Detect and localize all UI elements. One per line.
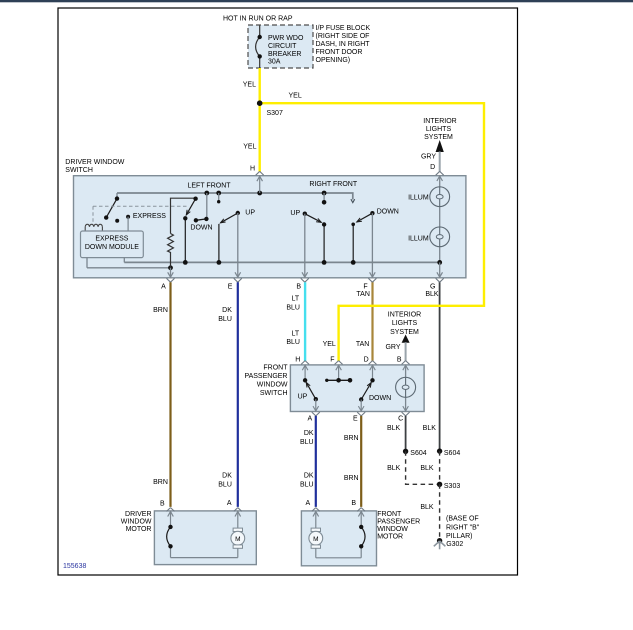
svg-text:FRONT: FRONT — [263, 364, 288, 371]
svg-text:ILLUM: ILLUM — [408, 194, 429, 201]
express switch stub — [116, 193, 118, 199]
svg-text:A: A — [161, 284, 166, 291]
motor M (passenger) — [313, 511, 319, 528]
svg-text:S307: S307 — [267, 110, 283, 117]
svg-text:DOWN: DOWN — [190, 225, 212, 232]
driver motor breaker branch — [168, 511, 238, 557]
left front UP switch arm — [221, 213, 238, 223]
pin G exit wire and arrow — [439, 262, 441, 277]
svg-text:S604: S604 — [444, 450, 460, 457]
svg-text:H: H — [250, 166, 255, 173]
left front DOWN make contact bar — [196, 219, 207, 220]
svg-text:A: A — [306, 500, 311, 507]
svg-text:DK: DK — [222, 307, 232, 314]
passenger DOWN switch: D feed wire — [372, 365, 374, 380]
svg-text:BRN: BRN — [153, 479, 168, 486]
svg-text:E: E — [353, 415, 358, 422]
pin H internal arrow — [257, 176, 263, 193]
svg-text:(BASE OF: (BASE OF — [446, 516, 479, 523]
splice S604 right — [437, 448, 442, 453]
svg-text:PILLAR): PILLAR) — [446, 533, 472, 540]
driver switch bus wire — [117, 193, 353, 200]
svg-text:G: G — [430, 284, 435, 291]
dashed BLK wire S604L to S303 — [406, 451, 440, 484]
ground G302 — [437, 538, 442, 543]
passenger illumination lamp wire — [405, 365, 407, 411]
node rail2 pin A junction — [168, 265, 173, 270]
interior lights system reference top — [423, 118, 456, 141]
passenger bottom pin chevrons A E C — [312, 412, 410, 416]
arrow to interior lights middle — [402, 335, 410, 343]
left front DOWN switch arm — [186, 199, 195, 215]
right front UP bus stub — [323, 193, 325, 202]
svg-text:HOT IN RUN OR RAP: HOT IN RUN OR RAP — [223, 16, 293, 23]
right front DOWN switch arm — [357, 213, 373, 222]
node bus left-down stub — [204, 191, 209, 196]
wire BRN driver A to motor B — [169, 282, 171, 507]
svg-text:E: E — [228, 284, 233, 291]
label PWR WDO CIRCUIT BREAKER 30A — [268, 35, 304, 66]
svg-text:WINDOW: WINDOW — [257, 382, 288, 389]
svg-text:UP: UP — [245, 210, 255, 217]
resistor R (driver switch) — [168, 198, 196, 268]
node bus right-up stub — [322, 191, 327, 196]
svg-text:BLK: BLK — [420, 465, 434, 472]
svg-text:BLU: BLU — [286, 305, 300, 312]
svg-text:DK: DK — [304, 430, 314, 437]
dashed BLK wire S604R to S303 — [439, 451, 441, 484]
svg-text:ILLUM: ILLUM — [408, 235, 429, 242]
passenger motor pin A chevron — [312, 508, 320, 512]
passenger pin A exit — [315, 399, 317, 411]
wire BLK driver G to S604 — [439, 282, 441, 451]
svg-text:INTERIOR: INTERIOR — [388, 311, 421, 318]
svg-text:LIGHTS: LIGHTS — [392, 320, 418, 327]
illumination lamp wire (driver switch) — [439, 176, 441, 263]
left front UP bus stub — [218, 193, 220, 202]
wire TAN driver F to passenger D — [371, 282, 373, 361]
svg-text:DRIVER WINDOW: DRIVER WINDOW — [65, 159, 125, 166]
svg-text:DRIVER: DRIVER — [125, 511, 151, 518]
pin H chevron (driver switch top) — [256, 171, 264, 175]
svg-text:UP: UP — [298, 394, 308, 401]
motor M (driver) — [235, 511, 241, 528]
wire GRY passenger B to interior lights — [405, 342, 407, 361]
svg-text:PASSENGER: PASSENGER — [377, 519, 420, 526]
svg-text:RIGHT "B": RIGHT "B" — [446, 524, 480, 531]
left front UP contact wire to rail — [218, 224, 220, 263]
svg-text:INTERIOR: INTERIOR — [423, 118, 456, 125]
svg-text:LT: LT — [292, 295, 300, 302]
border frame — [58, 8, 518, 575]
svg-text:DOWN: DOWN — [369, 395, 391, 402]
left front DOWN contact wire to rail — [184, 218, 186, 262]
ground rail wire (rail1) — [124, 261, 439, 263]
svg-text:B: B — [296, 284, 301, 291]
express contact — [126, 215, 130, 219]
arrow to interior lights top — [436, 140, 444, 152]
breaker arc (driver motor) — [167, 527, 171, 546]
wire right UP pivot to pin B — [304, 214, 306, 278]
driver bottom pin chevrons A E B F G — [167, 278, 444, 282]
wire BRN passenger E to motor B — [360, 416, 362, 507]
wire UP pivot to pin E — [237, 213, 239, 277]
svg-text:BRN: BRN — [344, 475, 359, 482]
node lamp to rail — [437, 260, 442, 265]
svg-text:F: F — [363, 284, 367, 291]
pin A exit wire and arrow — [170, 268, 172, 277]
svg-text:LIGHTS: LIGHTS — [426, 126, 452, 133]
svg-text:DK: DK — [304, 472, 314, 479]
passenger motor pin B chevron — [357, 508, 365, 512]
svg-text:155638: 155638 — [63, 563, 86, 570]
splice S604 left — [403, 449, 408, 454]
svg-text:UP: UP — [290, 210, 300, 217]
svg-text:WINDOW: WINDOW — [377, 526, 408, 533]
I/P fuse block dashed box — [248, 25, 313, 68]
dashed BLK wire S303 to G302 — [439, 484, 441, 539]
breaker arc (passenger motor) — [361, 527, 365, 546]
splice S307 — [257, 100, 263, 106]
pin E exit arrow — [235, 272, 241, 277]
front passenger window switch box — [290, 365, 424, 412]
svg-text:SWITCH: SWITCH — [260, 390, 288, 397]
svg-text:(RIGHT SIDE OF: (RIGHT SIDE OF — [316, 33, 370, 40]
passenger DOWN arm — [361, 383, 371, 400]
motor pin B chevron — [167, 508, 175, 512]
svg-text:M: M — [235, 536, 240, 543]
svg-text:BLU: BLU — [286, 339, 300, 346]
svg-text:S303: S303 — [444, 483, 460, 490]
right front UP switch arm — [305, 214, 322, 223]
svg-text:DASH, IN RIGHT: DASH, IN RIGHT — [316, 41, 371, 48]
wire DK BLU driver E to motor A — [237, 282, 239, 507]
splice S303 — [437, 482, 442, 487]
coil of express down module — [85, 224, 102, 231]
node bus-H junction — [257, 191, 262, 196]
svg-text:BLK: BLK — [425, 291, 439, 298]
left front DOWN bus stub — [206, 193, 208, 219]
page top bar — [0, 0, 633, 2]
svg-text:D: D — [430, 164, 435, 171]
right front UP contact wire to rail — [323, 225, 325, 263]
svg-text:S604: S604 — [410, 450, 426, 457]
svg-text:B: B — [351, 500, 356, 507]
svg-text:FRONT: FRONT — [377, 511, 402, 518]
svg-text:SYSTEM: SYSTEM — [424, 134, 453, 141]
svg-text:A: A — [308, 415, 313, 422]
label I/P FUSE BLOCK location — [316, 25, 371, 64]
wire express contact to module — [127, 217, 129, 231]
node bus left-up stub — [216, 191, 221, 196]
wire YEL breaker to S307 to driver H, and S307 to passenger F — [260, 68, 484, 361]
passenger motor breaker branch — [316, 511, 364, 557]
svg-text:DK: DK — [222, 472, 232, 479]
express rest contact — [115, 219, 119, 223]
express down module box — [81, 231, 144, 258]
passenger F feed wire and bar — [338, 365, 340, 380]
svg-text:F: F — [330, 357, 334, 364]
svg-text:EXPRESS: EXPRESS — [95, 236, 128, 243]
svg-text:A: A — [227, 500, 232, 507]
front passenger window motor box — [301, 511, 376, 566]
express switch arm — [106, 199, 117, 218]
svg-text:BLK: BLK — [420, 504, 434, 511]
passenger UP switch: H feed wire — [304, 365, 306, 380]
svg-text:D: D — [364, 357, 369, 364]
svg-text:30A: 30A — [268, 59, 281, 66]
svg-text:SYSTEM: SYSTEM — [390, 329, 419, 336]
svg-text:OPENING): OPENING) — [316, 57, 351, 64]
wire LT BLU driver B to passenger H — [304, 282, 306, 361]
lamp ILLUM 1 — [430, 187, 450, 207]
svg-text:G302: G302 — [446, 541, 463, 548]
svg-text:B: B — [160, 501, 165, 508]
driver window motor box — [154, 511, 256, 565]
lamp ILLUM (passenger) — [396, 377, 416, 397]
svg-text:BLU: BLU — [300, 439, 314, 446]
svg-text:GRY: GRY — [385, 344, 400, 351]
module output left wire — [86, 258, 88, 268]
svg-text:PWR WDO: PWR WDO — [268, 35, 304, 42]
svg-text:YEL: YEL — [289, 93, 302, 100]
wire right DOWN pivot to pin F — [371, 213, 373, 277]
svg-text:I/P FUSE BLOCK: I/P FUSE BLOCK — [316, 25, 371, 32]
svg-text:MOTOR: MOTOR — [377, 534, 403, 541]
wire BLK passenger C to S604 — [405, 416, 407, 451]
svg-text:WINDOW: WINDOW — [121, 519, 152, 526]
svg-text:BREAKER: BREAKER — [268, 51, 301, 58]
passenger UP arm — [306, 382, 316, 399]
wire GRY driver D to interior lights — [439, 152, 441, 172]
svg-text:BLU: BLU — [218, 316, 232, 323]
svg-text:CIRCUIT: CIRCUIT — [268, 43, 297, 50]
svg-text:BLK: BLK — [387, 425, 401, 432]
svg-text:EXPRESS: EXPRESS — [133, 213, 166, 220]
circuit breaker PWR WDO 30A — [256, 26, 260, 69]
passenger pin E exit — [360, 400, 362, 412]
svg-text:H: H — [295, 357, 300, 364]
svg-text:DOWN: DOWN — [377, 209, 399, 216]
svg-text:BLU: BLU — [218, 481, 232, 488]
svg-text:SWITCH: SWITCH — [65, 167, 93, 174]
svg-text:MOTOR: MOTOR — [126, 526, 152, 533]
svg-text:TAN: TAN — [356, 341, 369, 348]
pin D chevron (driver switch top) — [436, 171, 444, 175]
svg-text:LT: LT — [292, 330, 300, 337]
svg-text:GRY: GRY — [421, 154, 436, 161]
svg-text:FRONT DOOR: FRONT DOOR — [316, 49, 363, 56]
wire DK BLU passenger A to motor A — [315, 416, 317, 507]
module output right wire — [123, 258, 125, 263]
svg-text:RIGHT FRONT: RIGHT FRONT — [309, 181, 357, 188]
right front DOWN contact wire to rail — [352, 224, 354, 262]
svg-text:BLU: BLU — [300, 481, 314, 488]
svg-text:B: B — [397, 357, 402, 364]
svg-text:DOWN MODULE: DOWN MODULE — [85, 244, 139, 251]
svg-text:YEL: YEL — [243, 82, 256, 89]
mechanical link dashed — [93, 206, 187, 222]
svg-text:LEFT FRONT: LEFT FRONT — [188, 182, 232, 189]
bus end arrowhead (right front down contact) — [351, 199, 355, 202]
svg-text:YEL: YEL — [323, 341, 336, 348]
motor pin A chevron — [234, 508, 242, 512]
svg-text:C: C — [398, 415, 403, 422]
lamp ILLUM 2 — [430, 227, 450, 247]
driver window switch box — [74, 176, 466, 278]
svg-text:BLK: BLK — [387, 465, 401, 472]
svg-text:YEL: YEL — [243, 144, 256, 151]
svg-text:M: M — [313, 536, 318, 543]
pin A rail wire (rail2) — [87, 267, 171, 269]
svg-text:BRN: BRN — [153, 307, 168, 314]
svg-text:TAN: TAN — [356, 291, 369, 298]
passenger top pin chevrons H F D B — [301, 361, 410, 365]
svg-text:BLK: BLK — [423, 425, 437, 432]
svg-text:PASSENGER: PASSENGER — [244, 373, 287, 380]
svg-text:BRN: BRN — [344, 435, 359, 442]
